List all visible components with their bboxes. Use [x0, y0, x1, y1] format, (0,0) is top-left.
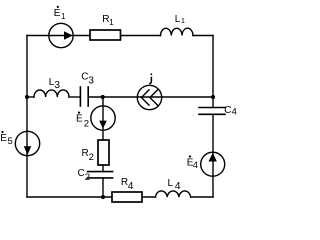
label R2	[82, 148, 94, 163]
capacitor C4 plates	[199, 108, 225, 115]
source E4 circle	[201, 152, 225, 176]
junction node A (middle wire / E2 branch)	[101, 95, 105, 99]
capacitor C2 plates	[88, 172, 113, 178]
label C3	[81, 72, 94, 87]
svg-text:1: 1	[109, 18, 114, 27]
source E4 arrowhead	[209, 153, 217, 162]
label L1	[175, 14, 185, 25]
svg-text:3: 3	[88, 76, 94, 87]
svg-text:2: 2	[89, 152, 94, 163]
inductor L1	[161, 28, 194, 35]
label C2	[78, 168, 91, 183]
source E5 arrowhead	[24, 146, 32, 155]
svg-text:4: 4	[193, 160, 198, 170]
source E5 circle	[15, 131, 39, 155]
svg-text:2: 2	[85, 172, 90, 183]
label R1	[102, 14, 114, 27]
capacitor C3 plates	[80, 87, 88, 106]
svg-text:L: L	[175, 14, 181, 25]
label E5	[0, 131, 13, 147]
source E2 arrowhead	[99, 121, 107, 129]
svg-text:L: L	[168, 178, 174, 189]
wire middle left (left wire to L3 start)	[27, 96, 34, 98]
wire E2 branch lower (C2 to bottom wire)	[102, 178, 104, 197]
resistor R1	[90, 30, 121, 40]
wire right vertical upper (corner to C4 top plate)	[212, 36, 214, 108]
svg-text:3: 3	[54, 80, 60, 91]
source E1 arrowhead	[64, 31, 73, 39]
svg-text:C: C	[78, 168, 85, 179]
inductor L3	[34, 90, 69, 97]
resistor R2	[98, 140, 109, 165]
wire right vertical lower (C4 bottom plate to corner, through E4)	[212, 114, 214, 197]
svg-text:4: 4	[175, 180, 181, 192]
wire left vertical (through E5)	[26, 36, 28, 198]
svg-text:2: 2	[84, 118, 89, 129]
wire bottom (left corner to L4 start, through R4)	[27, 196, 156, 198]
label E2	[76, 112, 89, 130]
svg-text:C: C	[224, 105, 231, 116]
svg-text:1: 1	[181, 16, 185, 25]
label L3	[49, 77, 61, 91]
wire middle right (C3 right plate to right wire, through j)	[88, 96, 213, 98]
svg-text:5: 5	[8, 136, 13, 147]
inductor L4	[156, 191, 191, 197]
junction node left (middle wire / left wire)	[25, 95, 29, 99]
junction node right (middle wire / right wire)	[211, 95, 215, 99]
source E1 circle	[49, 23, 73, 47]
current source j chevrons	[141, 89, 158, 105]
junction node bottom (E2 branch / bottom wire)	[101, 195, 105, 199]
svg-text:E: E	[0, 133, 7, 144]
svg-text:1: 1	[61, 12, 66, 21]
svg-text:E: E	[54, 8, 61, 19]
wire middle (L3 end to C3 left plate)	[69, 96, 80, 98]
svg-text:4: 4	[128, 181, 134, 192]
label E4	[187, 155, 198, 170]
label C4	[224, 105, 237, 117]
resistor R4	[112, 192, 142, 202]
svg-text:4: 4	[232, 106, 237, 116]
wire top (left corner to L1 start, through E1 and R1)	[27, 35, 161, 37]
wire bottom right (L4 end to bottom-right corner)	[191, 196, 213, 198]
current source j circle	[137, 85, 161, 109]
wire E2 branch upper (node A to R2, through E2)	[102, 97, 104, 172]
label L4	[168, 178, 181, 192]
source E2 circle	[91, 106, 115, 130]
label R4	[121, 177, 134, 192]
wire top right (L1 end to top-right corner)	[193, 35, 213, 37]
label j	[149, 77, 151, 84]
label E1	[54, 6, 66, 21]
svg-text:E: E	[76, 114, 83, 125]
